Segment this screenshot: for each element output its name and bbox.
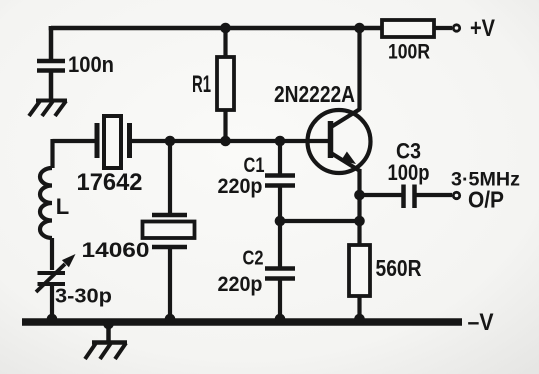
svg-text:100R: 100R (388, 41, 430, 64)
svg-text:220p: 220p (218, 273, 263, 296)
wire emitter down (357, 169, 361, 245)
svg-text:100n: 100n (68, 52, 114, 77)
wire coil to trimmer (50, 238, 54, 270)
capacitor C3 (404, 185, 453, 209)
wire base line (53, 139, 333, 143)
node C1/C2 mid (275, 216, 286, 227)
svg-text:220p: 220p (218, 175, 263, 198)
node C2 rail (275, 314, 286, 325)
terminal O/P (453, 192, 459, 198)
inductor L (40, 168, 52, 238)
node emitter tap (354, 216, 365, 227)
svg-text:–V: –V (468, 309, 494, 336)
terminal +V (453, 25, 459, 31)
wire left loop down (50, 139, 54, 168)
wire 14060 branch (168, 141, 172, 214)
capacitor C2 (265, 221, 295, 320)
node 14060 rail (165, 314, 176, 325)
svg-text:C1: C1 (244, 154, 265, 177)
svg-text:17642: 17642 (77, 169, 143, 196)
node R1 base (220, 136, 231, 147)
resistor R1 (217, 28, 234, 141)
resistor 100R (382, 20, 452, 37)
wire output row (360, 193, 403, 197)
capacitor 100n (37, 61, 65, 99)
wire bottom rail (22, 318, 462, 326)
svg-text:560R: 560R (376, 255, 422, 281)
svg-text:100p: 100p (388, 160, 430, 185)
wire top rail (51, 26, 382, 28)
capacitor C1 (265, 141, 295, 221)
crystal X2 14060 (143, 215, 195, 320)
trimmer capacitor 3-30p (36, 254, 76, 320)
svg-text:C2: C2 (243, 248, 264, 270)
svg-text:2N2222A: 2N2222A (274, 81, 355, 107)
crystal X1 17642 (97, 116, 130, 168)
node trimmer rail (47, 314, 58, 325)
svg-text:3-30p: 3-30p (55, 286, 112, 308)
wire C1/C2 tap to emitter (280, 219, 360, 223)
svg-text:L: L (56, 194, 69, 219)
wire left drop to 100n (49, 26, 54, 60)
node R1 top (220, 23, 231, 34)
resistor 560R (349, 245, 370, 320)
node C1 base (275, 136, 286, 147)
node 14060 base (165, 136, 176, 147)
node emitter output (354, 190, 365, 201)
transistor Q1 2N2222A (308, 109, 371, 173)
node collector top (354, 23, 365, 34)
wire collector up (357, 28, 361, 110)
svg-text:+V: +V (470, 15, 495, 42)
svg-text:R1: R1 (192, 71, 211, 98)
svg-text:14060: 14060 (82, 239, 150, 262)
svg-text:O/P: O/P (468, 187, 504, 213)
node 560R rail (354, 314, 365, 325)
ground (bottom) (85, 324, 127, 359)
ground (top left) (29, 101, 67, 117)
node ground rail (103, 319, 114, 330)
